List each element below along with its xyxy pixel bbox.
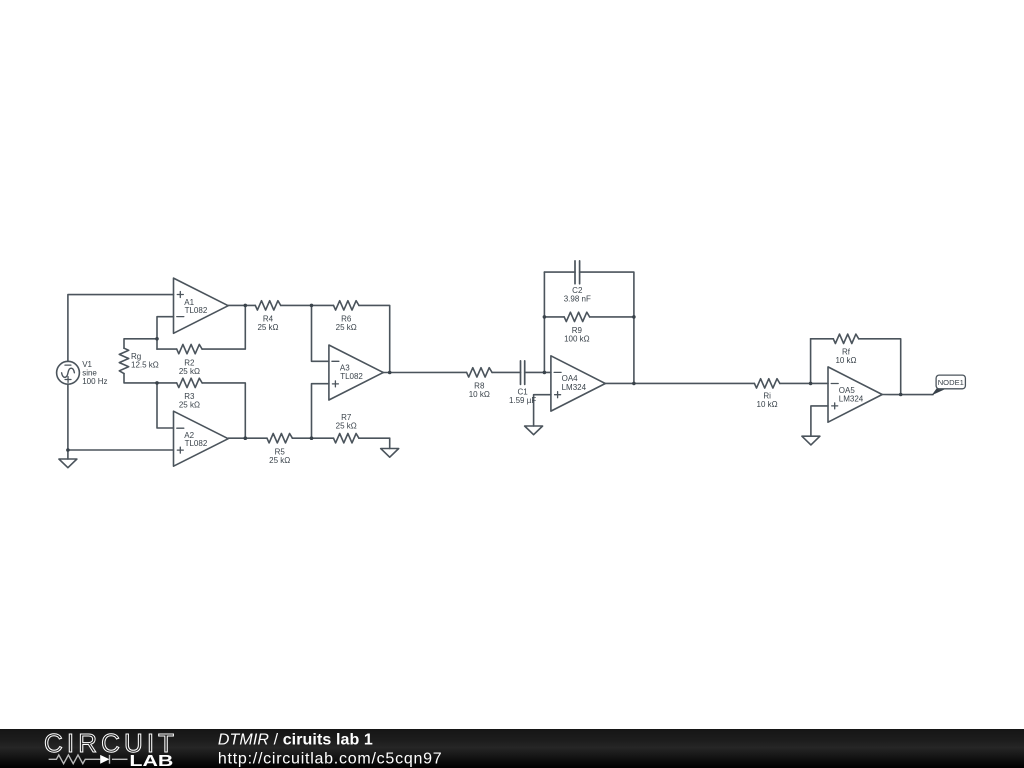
ground GND1 bbox=[59, 450, 77, 468]
svg-text:LM324: LM324 bbox=[839, 395, 864, 404]
capacitor C2 bbox=[544, 261, 634, 384]
wire A2 minus input loop bbox=[157, 383, 174, 428]
svg-text:OA4: OA4 bbox=[562, 374, 579, 383]
node A3 minus net bbox=[310, 304, 314, 308]
svg-text:TL082: TL082 bbox=[185, 306, 208, 315]
node V1-gnd bbox=[66, 448, 70, 452]
svg-text:10 kΩ: 10 kΩ bbox=[757, 400, 778, 409]
wire V1 top to A1 plus input bbox=[68, 295, 174, 362]
op-amp A2 bbox=[174, 411, 229, 466]
svg-text:TL082: TL082 bbox=[185, 439, 208, 448]
wire A3 minus input bbox=[312, 305, 329, 361]
ground GND4 bbox=[802, 436, 820, 445]
node OA5 minus net bbox=[809, 382, 813, 386]
resistor R3 bbox=[157, 378, 245, 438]
wire OA5 output to NODE1 bbox=[882, 394, 933, 396]
node OA5 out bbox=[899, 393, 903, 397]
svg-text:25 kΩ: 25 kΩ bbox=[179, 401, 200, 410]
wire V1 bottom to ground node bbox=[67, 384, 69, 450]
resistor Rg bbox=[119, 348, 128, 373]
node Rg top bbox=[155, 337, 159, 341]
node flag NODE1 bbox=[932, 375, 966, 395]
node Rg bottom bbox=[155, 381, 159, 385]
node OA4 out bbox=[632, 382, 636, 386]
svg-text:DTMIR / ciruits lab 1: DTMIR / ciruits lab 1 bbox=[218, 732, 373, 749]
svg-text:OA5: OA5 bbox=[839, 386, 856, 395]
svg-text:25 kΩ: 25 kΩ bbox=[336, 323, 357, 332]
resistor R4 bbox=[255, 301, 311, 310]
svg-text:NODE1: NODE1 bbox=[938, 378, 964, 387]
ground GND3 bbox=[525, 426, 543, 435]
wire A2 output row bbox=[228, 437, 267, 439]
svg-text:100 Hz: 100 Hz bbox=[82, 377, 107, 386]
svg-text:25 kΩ: 25 kΩ bbox=[257, 323, 278, 332]
svg-text:LM324: LM324 bbox=[562, 383, 587, 392]
resistor Rf bbox=[811, 334, 901, 394]
svg-text:10 kΩ: 10 kΩ bbox=[469, 390, 490, 399]
junction dots bbox=[66, 304, 902, 452]
resistor R9 bbox=[544, 312, 634, 321]
resistor R2 bbox=[157, 305, 245, 353]
logo resistor and diode line bbox=[49, 755, 128, 764]
svg-text:25 kΩ: 25 kΩ bbox=[269, 456, 290, 465]
node A1 out bbox=[244, 304, 248, 308]
svg-text:TL082: TL082 bbox=[340, 372, 363, 381]
wire A1 minus input loop bbox=[157, 317, 174, 349]
op-amp A1 bbox=[174, 278, 229, 333]
wire A3 output to R8 bbox=[383, 371, 466, 373]
svg-text:10 kΩ: 10 kΩ bbox=[835, 356, 856, 365]
svg-text:25 kΩ: 25 kΩ bbox=[336, 421, 357, 430]
resistor R5 bbox=[267, 434, 312, 443]
node A2 out bbox=[244, 436, 248, 440]
resistor R6 bbox=[312, 301, 390, 373]
resistor R8 bbox=[467, 368, 521, 377]
node R9 right bbox=[632, 315, 636, 319]
wire OA5 plus to ground bbox=[811, 406, 828, 436]
op-amp OA5 bbox=[828, 367, 882, 422]
wire OA4 feedback vertical bbox=[543, 272, 545, 372]
node R9 left bbox=[543, 315, 547, 319]
footer bar bbox=[0, 729, 1024, 768]
ground GND2 bbox=[381, 438, 399, 457]
svg-text:25 kΩ: 25 kΩ bbox=[179, 367, 200, 376]
node OA4 minus net bbox=[543, 371, 547, 375]
op-amp A3 bbox=[329, 345, 383, 400]
svg-text:http://circuitlab.com/c5cqn97: http://circuitlab.com/c5cqn97 bbox=[218, 751, 443, 768]
wire Rg bottom to node bbox=[124, 374, 157, 383]
svg-text:1.59 µF: 1.59 µF bbox=[509, 396, 536, 405]
svg-text:100 kΩ: 100 kΩ bbox=[564, 335, 590, 344]
wire A1 output row bbox=[228, 304, 255, 306]
wire A3 plus input bbox=[312, 384, 329, 439]
wire OA4 plus to ground bbox=[534, 395, 551, 426]
svg-text:3.98 nF: 3.98 nF bbox=[564, 295, 591, 304]
wire OA5 feedback vertical bbox=[810, 339, 812, 384]
node A3 plus net bbox=[310, 436, 314, 440]
capacitor C1 bbox=[521, 361, 551, 385]
wire OA4 output row to Ri bbox=[605, 382, 754, 384]
svg-text:12.5 kΩ: 12.5 kΩ bbox=[131, 361, 159, 370]
labels bbox=[82, 286, 864, 465]
resistor R7 bbox=[312, 434, 390, 443]
node A3 out bbox=[388, 371, 392, 375]
resistor Ri bbox=[754, 379, 828, 388]
wire node to Rg top bbox=[124, 339, 157, 348]
voltage source V1 bbox=[57, 361, 80, 384]
op-amp OA4 bbox=[551, 356, 605, 411]
wire ground node to A2 plus input bbox=[68, 449, 174, 451]
svg-text:LAB: LAB bbox=[129, 753, 173, 768]
